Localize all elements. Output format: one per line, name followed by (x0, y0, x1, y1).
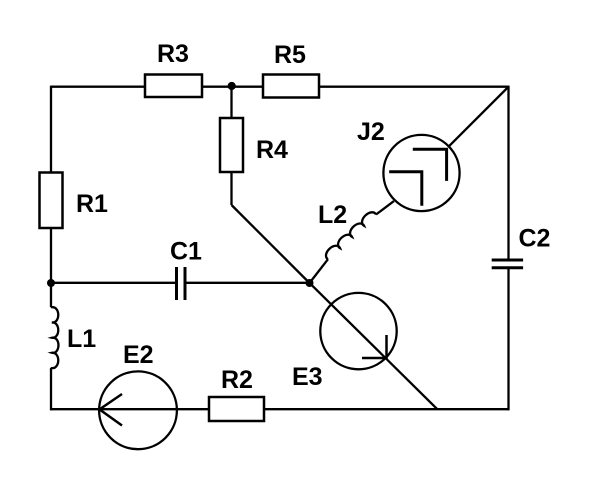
resistor R4 (220, 118, 243, 172)
arrow of J2 lower (389, 172, 422, 206)
voltage source E2 (99, 371, 177, 449)
svg-text:R5: R5 (274, 41, 306, 69)
svg-text:E2: E2 (123, 341, 154, 369)
svg-text:R1: R1 (76, 190, 108, 218)
wire C1 to central node (187, 282, 310, 284)
wire R1 to left node (50, 228, 52, 307)
wire R4 down (230, 172, 232, 205)
wire L2 to central node (310, 259, 329, 283)
svg-text:R2: R2 (221, 366, 253, 394)
arrow of J2 upper (413, 149, 447, 181)
wire node to R4 (230, 87, 232, 118)
resistor R3 (145, 75, 202, 98)
inductor L1 (51, 307, 58, 369)
wire top-left horizontal (51, 86, 145, 88)
wire right vertical upper (507, 86, 509, 259)
svg-text:R3: R3 (157, 40, 189, 68)
node top junction (228, 82, 236, 90)
wire middle horizontal left (51, 282, 175, 284)
arrow of E3 (362, 335, 387, 358)
resistor R5 (263, 75, 319, 98)
wire R3 to R5 (202, 86, 263, 88)
resistor R2 (209, 397, 264, 421)
capacitor C2 (492, 260, 523, 268)
wire J2 to L2 (376, 201, 394, 214)
svg-text:C2: C2 (519, 225, 551, 253)
wire diagonal top-right corner to J2 (449, 87, 509, 147)
svg-text:R4: R4 (256, 136, 288, 164)
wire L1 to bottom-left corner (50, 368, 52, 410)
svg-text:L2: L2 (318, 201, 347, 229)
svg-text:C1: C1 (170, 238, 202, 266)
wire right vertical lower (507, 269, 509, 410)
node central junction (306, 279, 314, 287)
current source J2 (383, 135, 459, 211)
node left junction (47, 279, 55, 287)
resistor R1 (40, 173, 63, 229)
inductor L2 (326, 212, 376, 259)
capacitor C1 (177, 267, 186, 300)
svg-text:L1: L1 (67, 325, 96, 353)
wire diagonal R4 to central node (232, 205, 310, 283)
wire R2 to bottom-right corner (264, 408, 509, 410)
wire R5 to top-right corner (319, 86, 509, 88)
voltage source E3 (320, 293, 396, 369)
wire left vertical upper (50, 86, 52, 173)
wire bottom through E2 (51, 408, 209, 410)
svg-text:E3: E3 (292, 363, 323, 391)
arrow of E2 (100, 394, 123, 426)
svg-text:J2: J2 (357, 118, 385, 146)
wire diagonal central node through E3 to bottom (310, 283, 438, 409)
